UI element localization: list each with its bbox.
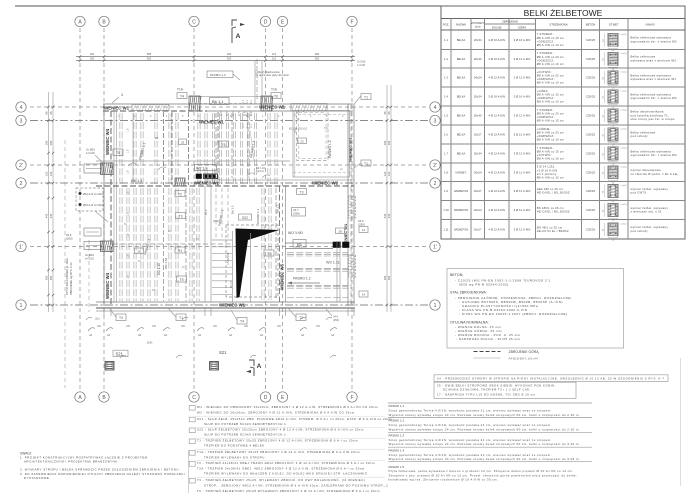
svg-text:E: E xyxy=(281,395,285,401)
beam B1 with label xyxy=(285,242,333,244)
balcony slab 3 xyxy=(84,242,103,250)
svg-text:14: 14 xyxy=(362,228,366,232)
heavy post line x218 xyxy=(217,112,219,186)
note block PASMO 1.4 xyxy=(388,446,592,448)
row 1.9 section sketch xyxy=(608,185,618,198)
slab edge line y161 xyxy=(96,160,290,162)
svg-text:pod schody: pod schody xyxy=(631,229,649,233)
note separator xyxy=(195,476,385,478)
svg-text:3 Ø 16 A-IIIN: 3 Ø 16 A-IIIN xyxy=(514,95,531,99)
wall hatch block left 1 xyxy=(101,163,114,175)
svg-text:24 - PRZEWIDZIEĆ OTWORY W STRO: 24 - PRZEWIDZIEĆ OTWORY W STROPIE NA PIO… xyxy=(437,375,665,380)
svg-text:C20/25: C20/25 xyxy=(586,57,595,61)
axis D vertical gridline xyxy=(265,28,267,390)
svg-text:20x34: 20x34 xyxy=(474,38,482,42)
svg-text:T3: T3 xyxy=(300,190,304,194)
svg-text:4 Ø 12 A-IIIN: 4 Ø 12 A-IIIN xyxy=(488,133,505,137)
svg-text:C20/25: C20/25 xyxy=(586,76,595,80)
leader arc xyxy=(228,328,235,331)
svg-text:180: 180 xyxy=(126,325,131,328)
svg-text:(250): (250) xyxy=(358,223,365,227)
svg-text:1.5: 1.5 xyxy=(444,114,448,118)
axis 4 left circle xyxy=(16,102,26,112)
axis D top circle xyxy=(260,16,270,26)
svg-text:21.5: 21.5 xyxy=(239,111,241,116)
svg-text:115: 115 xyxy=(272,57,277,61)
svg-text:4 Ø 12 A-IIIN: 4 Ø 12 A-IIIN xyxy=(488,152,505,156)
beam wieniec W1 top xyxy=(103,103,353,105)
black square block 1 xyxy=(333,242,341,248)
svg-text:PASMO 1.1: PASMO 1.1 xyxy=(389,404,405,408)
beam W1 top hatched segment xyxy=(132,105,169,111)
svg-text:Ø8 A-IIIN co 10 cm: Ø8 A-IIIN co 10 cm xyxy=(537,138,565,142)
svg-text:C20/25: C20/25 xyxy=(586,189,595,193)
leader arc xyxy=(197,328,204,331)
svg-text:60: 60 xyxy=(182,267,185,269)
svg-text:20x40: 20x40 xyxy=(474,57,482,61)
svg-text:wb: wb xyxy=(89,334,93,337)
svg-text:Ø8 A-IIIN co 15 cm: Ø8 A-IIIN co 15 cm xyxy=(537,175,565,179)
ribs room C-D upper xyxy=(197,113,199,184)
top dimension line 1 xyxy=(76,56,355,58)
svg-text:1: 1 xyxy=(262,115,264,118)
svg-text:585: 585 xyxy=(147,52,152,56)
svg-text:Bel 1.4: Bel 1.4 xyxy=(131,179,142,183)
svg-text:F: F xyxy=(350,395,353,401)
svg-text:2: 2 xyxy=(20,181,23,187)
table row 1.8 separator xyxy=(441,162,685,164)
table header bottom line xyxy=(441,29,685,31)
svg-text:28: 28 xyxy=(338,229,342,233)
svg-text:180: 180 xyxy=(90,52,95,56)
note block PASMO 1.5 xyxy=(388,461,592,463)
svg-text:WIENIEC W1: WIENIEC W1 xyxy=(103,105,130,110)
label 28 boxed xyxy=(336,228,345,234)
svg-text:365: 365 xyxy=(49,275,53,280)
axis B top circle xyxy=(99,16,109,26)
svg-text:4: 4 xyxy=(121,93,123,97)
svg-text:"+str(2)+": "+str(2)+" xyxy=(620,33,629,36)
svg-text:34: 34 xyxy=(603,96,605,99)
svg-text:"+str(2)+": "+str(2)+" xyxy=(620,128,629,131)
svg-text:2. WYMIARY STROPU I BELEK SPRA: 2. WYMIARY STROPU I BELEK SPRAWDZIĆ PRZE… xyxy=(20,466,179,471)
svg-text:HE-CA/EL / BS_50/50Z: HE-CA/EL / BS_50/50Z xyxy=(537,191,570,195)
svg-text:W2 1.11: W2 1.11 xyxy=(326,261,340,265)
svg-text:T4: T4 xyxy=(240,319,244,323)
svg-text:C: C xyxy=(192,395,196,401)
beam wieniec W2 axis2 xyxy=(205,179,354,181)
svg-text:20x27: 20x27 xyxy=(474,189,482,193)
svg-text:D: D xyxy=(264,20,268,26)
svg-text:T-9: T-9 xyxy=(324,127,328,130)
reinforcement callout box xyxy=(76,188,103,211)
svg-text:"+str(2)+": "+str(2)+" xyxy=(620,203,629,206)
row 1.8 section sketch xyxy=(608,166,618,179)
ribs room B-C upper xyxy=(119,113,121,184)
svg-text:C20/25: C20/25 xyxy=(586,208,595,212)
svg-text:5: 5 xyxy=(182,115,184,118)
svg-text:BETON:: BETON: xyxy=(450,273,463,277)
svg-text:"+str(2)+": "+str(2)+" xyxy=(620,71,629,74)
table row 1.9 separator xyxy=(441,181,685,183)
T5 boxed label lower room xyxy=(177,276,187,282)
beam wieniec W4 left vertical xyxy=(103,104,105,306)
black square row near C-D axis2 xyxy=(196,174,202,179)
svg-text:120: 120 xyxy=(387,171,391,176)
axis A vertical gridline xyxy=(79,28,81,390)
svg-text:34: 34 xyxy=(603,228,605,231)
leader arc xyxy=(163,328,170,331)
svg-text:1.6: 1.6 xyxy=(444,133,448,137)
axis C vertical gridline xyxy=(193,28,195,390)
svg-text:34: 34 xyxy=(603,58,605,61)
svg-text:T1A: T1A xyxy=(271,88,278,92)
svg-text:STRZEMIONA: STRZEMIONA xyxy=(549,23,567,27)
svg-text:TRZPIEŃ DO PODSTAWĘ 4 BELEK: TRZPIEŃ DO PODSTAWĘ 4 BELEK xyxy=(204,444,265,448)
svg-text:"+str(2)+": "+str(2)+" xyxy=(620,52,629,55)
svg-text:3 Ø 16 A-IIIN: 3 Ø 16 A-IIIN xyxy=(488,95,505,99)
26 boxed left xyxy=(135,248,144,254)
svg-text:wb: wb xyxy=(138,334,142,337)
row 1.5 section sketch xyxy=(608,109,618,122)
svg-text:T6 - TRZPIEŃ ŻELBETOWY 25x25 W: T6 - TRZPIEŃ ŻELBETOWY 25x25 WYLEWANY ZB… xyxy=(197,488,380,493)
svg-text:3 Ø 12 A-IIIN: 3 Ø 12 A-IIIN xyxy=(514,170,531,174)
svg-text:21.5: 21.5 xyxy=(247,99,249,104)
svg-text:wylewana wraz z wieńcem W1: wylewana wraz z wieńcem W1 xyxy=(631,77,677,81)
svg-text:A: A xyxy=(236,33,241,40)
svg-text:445: 445 xyxy=(387,213,391,218)
leader arc xyxy=(88,328,95,331)
svg-text:T2A - TRZPIEŃ 24x38/41 OBEJ. 4: T2A - TRZPIEŃ 24x38/41 OBEJ. 4Ø12 ZBROJO… xyxy=(197,466,365,470)
svg-text:PASMO 1.4: PASMO 1.4 xyxy=(256,209,260,224)
svg-text:HE-CA/EL / BS_50/50Z: HE-CA/EL / BS_50/50Z xyxy=(537,210,570,214)
svg-text:A4-BLB-BH-1 101+A4: A4-BLB-BH-1 101+A4 xyxy=(509,357,539,361)
T1 boxed bottom xyxy=(176,314,186,321)
axis 1 right circle xyxy=(430,300,440,310)
svg-text:E: E xyxy=(281,20,285,26)
label T6 boxed mid xyxy=(219,141,229,147)
axis E vertical gridline xyxy=(282,28,284,390)
axis 2 horizontal gridline xyxy=(30,182,428,184)
svg-text:Wypełnić otwory wylewkę stropu: Wypełnić otwory wylewkę stropu 24 cm. Ro… xyxy=(389,442,581,446)
dim tick xyxy=(351,55,354,58)
svg-text:NADBETON: NADBETON xyxy=(454,208,468,212)
svg-text:7 STRZEM.:: 7 STRZEM.: xyxy=(537,108,554,112)
svg-text:Ø10 A-III co 20cm: Ø10 A-III co 20cm xyxy=(83,203,104,207)
balcony slab 1 xyxy=(84,164,103,173)
svg-text:1.11: 1.11 xyxy=(443,227,449,231)
stair steps xyxy=(212,239,232,241)
axis 1 horizontal gridline xyxy=(30,304,428,306)
right vertical dimension line 2 xyxy=(390,85,392,312)
svg-text:Bd 1.5: Bd 1.5 xyxy=(276,204,280,213)
svg-text:3 Ø 14 L251,: 3 Ø 14 L251, xyxy=(537,165,556,169)
svg-text:WIENIEC W1: WIENIEC W1 xyxy=(219,303,246,308)
svg-text:180: 180 xyxy=(152,325,157,328)
svg-text:T6: T6 xyxy=(222,143,226,147)
label W2 1.9 boxed xyxy=(195,165,217,171)
svg-text:6: 6 xyxy=(198,115,200,118)
entrance beam Bd 1.1 xyxy=(189,96,272,98)
svg-text:PASMO 1.1: PASMO 1.1 xyxy=(218,209,225,226)
svg-text:wb: wb xyxy=(164,334,168,337)
T3 boxed bottom xyxy=(296,314,306,321)
svg-text:7 STRZEM.:: 7 STRZEM.: xyxy=(537,51,554,55)
svg-text:86: 86 xyxy=(45,111,49,114)
svg-text:TRZPIEŃ WYLEWANY DO WŁĄCZEŃ Z: TRZPIEŃ WYLEWANY DO WŁĄCZEŃ Z KOLEJ. DO … xyxy=(204,471,367,476)
svg-text:180: 180 xyxy=(244,325,249,328)
svg-text:445: 445 xyxy=(383,213,387,218)
svg-text:A: A xyxy=(78,20,82,26)
svg-text:T6: T6 xyxy=(274,94,278,98)
svg-text:BELKI ŻELBETOWE: BELKI ŻELBETOWE xyxy=(524,8,603,18)
svg-text:wb: wb xyxy=(229,334,233,337)
svg-text:BELKA: BELKA xyxy=(457,76,466,80)
left vertical dimension line 2 xyxy=(52,92,54,312)
svg-text:C20/25: C20/25 xyxy=(586,170,595,174)
svg-text:"+str(2)+": "+str(2)+" xyxy=(620,147,629,150)
black square block 2 xyxy=(343,242,350,248)
table row 1.2 separator xyxy=(441,49,685,51)
beam wieniec W3 right vertical xyxy=(347,104,349,306)
axis B bottom circle xyxy=(99,392,109,402)
svg-text:21.5: 21.5 xyxy=(245,111,247,116)
svg-text:180: 180 xyxy=(97,325,102,328)
svg-text:WIENIEC W1: WIENIEC W1 xyxy=(199,119,225,124)
dim tick xyxy=(47,164,50,167)
svg-text:580: 580 xyxy=(315,57,320,61)
svg-text:T1: T1 xyxy=(364,95,368,99)
leader arc xyxy=(259,328,266,331)
svg-text:(24.2): (24.2) xyxy=(257,169,264,173)
svg-text:W1 - WIENIEC DO OBWODOWY 20x20: W1 - WIENIEC DO OBWODOWY 20x20cm, ZBROJO… xyxy=(197,405,378,409)
svg-text:2: 2 xyxy=(278,115,280,118)
label T6 boxed xyxy=(271,93,281,99)
svg-text:Ø8 A-IIIN co 20 cm: Ø8 A-IIIN co 20 cm xyxy=(537,74,565,78)
leader arc xyxy=(300,328,307,331)
svg-text:365: 365 xyxy=(383,275,387,280)
svg-text:SŁUP DO POTRZEB ŚCIAN ZEWNĘTRZ: SŁUP DO POTRZEB ŚCIAN ZEWNĘTRZNYCH 1 xyxy=(204,432,286,437)
svg-text:120: 120 xyxy=(383,171,387,176)
svg-text:PŁYTA BALKONOWA gr. 16cm: PŁYTA BALKONOWA gr. 16cm xyxy=(65,257,69,295)
svg-text:wb: wb xyxy=(301,334,305,337)
axis 3 right circle xyxy=(430,115,440,125)
T3 boxed left room xyxy=(176,213,186,219)
table row 1.5 separator xyxy=(441,105,685,107)
svg-text:W2 1.9: W2 1.9 xyxy=(196,166,207,170)
small label 23 boxed xyxy=(179,139,187,145)
svg-text:21.5: 21.5 xyxy=(256,80,259,85)
svg-text:3 Ø 12 A-IIIN: 3 Ø 12 A-IIIN xyxy=(514,152,531,156)
svg-text:HE-CN 51 EL / B428/2: HE-CN 51 EL / B428/2 xyxy=(537,229,569,233)
svg-text:z gł. na obw. płyty obu stron: z gł. na obw. płyty obu stron xyxy=(257,73,290,77)
svg-text:20: 20 xyxy=(612,88,615,90)
boxed note 24 xyxy=(434,375,668,382)
svg-text:W2 - WIENIEC DO 20x20cm, ZBROJ: W2 - WIENIEC DO 20x20cm, ZBROJONY 4 Ø 12… xyxy=(197,411,355,415)
svg-text:+GÓRNE:: +GÓRNE: xyxy=(537,126,551,131)
inner wall lines right of W4 xyxy=(113,111,115,302)
svg-text:pod CW75: pod CW75 xyxy=(631,191,647,195)
label T1 boxed right xyxy=(361,94,371,100)
svg-text:T3: T3 xyxy=(267,252,271,256)
svg-text:20: 20 xyxy=(612,145,615,147)
svg-text:20x27: 20x27 xyxy=(474,133,482,137)
svg-text:1.8: 1.8 xyxy=(127,128,130,132)
svg-text:1': 1' xyxy=(19,245,23,251)
svg-text:WIENIEC W2: WIENIEC W2 xyxy=(312,181,339,186)
svg-text:180: 180 xyxy=(90,57,95,61)
svg-text:z wieńcami obj. o 51: z wieńcami obj. o 51 xyxy=(631,210,662,214)
svg-text:Ø8 A-IIIN co 10 cm: Ø8 A-IIIN co 10 cm xyxy=(537,62,565,66)
svg-text:Wypełnić otwory wylewkę stropu: Wypełnić otwory wylewkę stropu 24 cm. Ro… xyxy=(389,427,581,431)
table row 1.4 separator xyxy=(441,86,685,88)
svg-text:wylewana wraz z wieńcem W2: wylewana wraz z wieńcem W2 xyxy=(631,58,677,62)
svg-text:295: 295 xyxy=(45,140,49,145)
svg-text:2': 2' xyxy=(433,163,437,169)
svg-text:Bb 1.1: Bb 1.1 xyxy=(212,99,224,104)
svg-text:17x18.5x25: 17x18.5x25 xyxy=(227,252,230,265)
axis F vertical gridline xyxy=(351,28,353,390)
axis F top circle xyxy=(347,16,357,26)
svg-text:PASMO 1.4: PASMO 1.4 xyxy=(389,448,405,452)
svg-text:C20/25: C20/25 xyxy=(586,133,595,137)
dim tick xyxy=(386,119,389,122)
svg-text:3 Ø 12 A-IIIN: 3 Ø 12 A-IIIN xyxy=(514,57,531,61)
svg-text:"+str(2)+": "+str(2)+" xyxy=(620,184,629,187)
svg-text:DYSTANSOWE.: DYSTANSOWE. xyxy=(24,476,51,480)
svg-text:T3: T3 xyxy=(179,214,183,218)
svg-text:BELKA: BELKA xyxy=(457,133,466,137)
svg-text:2 Ø 12 A-IIIN: 2 Ø 12 A-IIIN xyxy=(514,76,531,80)
room E-F upper outline xyxy=(293,111,350,178)
labels 14 boxed right xyxy=(359,227,368,233)
axis2 hatch block xyxy=(175,178,185,186)
svg-text:+DGĘSZCZ.:: +DGĘSZCZ.: xyxy=(537,115,555,119)
svg-text:60: 60 xyxy=(196,239,199,241)
dim tick xyxy=(47,182,50,185)
svg-text:F: F xyxy=(350,20,353,26)
svg-text:365: 365 xyxy=(387,275,391,280)
svg-text:20: 20 xyxy=(612,50,615,52)
svg-text:ØS 48/1 co 30 cm: ØS 48/1 co 30 cm xyxy=(537,225,563,229)
svg-text:W2 1.10: W2 1.10 xyxy=(157,263,161,275)
svg-text:295: 295 xyxy=(387,140,391,145)
svg-text:24x24: 24x24 xyxy=(474,76,482,80)
dim tick xyxy=(386,304,389,307)
dim tick xyxy=(386,164,389,167)
axis D bottom circle xyxy=(260,392,270,402)
label T4 boxed xyxy=(177,93,187,99)
svg-text:1.8: 1.8 xyxy=(127,170,130,174)
svg-text:180: 180 xyxy=(213,325,218,328)
beam wieniec W5 axis E lower xyxy=(279,186,281,302)
svg-text:HEA 180 co 26 cm: HEA 180 co 26 cm xyxy=(537,187,564,191)
svg-text:C20/25: C20/25 xyxy=(586,114,595,118)
svg-text:L=2.00: L=2.00 xyxy=(85,256,94,260)
svg-text:(250): (250) xyxy=(213,219,220,223)
svg-text:B1.2 4x Ø10 L10: B1.2 4x Ø10 L10 xyxy=(289,128,308,131)
svg-text:WIENIEC W1: WIENIEC W1 xyxy=(348,137,353,162)
column S21 left label xyxy=(113,350,128,356)
svg-text:4 Ø 16 A-IIIN: 4 Ø 16 A-IIIN xyxy=(488,38,505,42)
svg-text:C: C xyxy=(192,20,196,26)
svg-text:B1: B1 xyxy=(297,242,303,247)
svg-text:34: 34 xyxy=(603,190,605,193)
axis A top circle xyxy=(75,16,85,26)
svg-text:PASMO 1.2: PASMO 1.2 xyxy=(210,73,226,77)
svg-text:(1b): (1b) xyxy=(95,317,100,321)
svg-text:pod schody: pod schody xyxy=(631,134,649,138)
wall stubs below beam xyxy=(103,308,105,316)
svg-text:26: 26 xyxy=(137,249,141,253)
boxed note 25 xyxy=(434,382,576,398)
svg-text:86: 86 xyxy=(49,111,53,114)
svg-text:NADBETON: NADBETON xyxy=(454,189,468,193)
svg-text:+GÓRĄ:: +GÓRĄ: xyxy=(537,88,549,93)
svg-text:115: 115 xyxy=(272,52,277,56)
svg-text:21.5: 21.5 xyxy=(256,94,259,99)
dim tick xyxy=(47,304,50,307)
svg-text:1: 1 xyxy=(20,303,23,309)
room E-F lower horizontal ribs xyxy=(287,252,348,254)
svg-text:3 Ø 16 A-IIIN: 3 Ø 16 A-IIIN xyxy=(514,38,531,42)
leader arc xyxy=(330,328,337,331)
dim tick xyxy=(386,106,389,109)
axis 2' right circle xyxy=(430,160,440,170)
svg-text:Ø8 A-IIIN co 10 cm: Ø8 A-IIIN co 10 cm xyxy=(537,43,565,47)
row 1.10 section sketch xyxy=(608,204,618,217)
axis 4 horizontal gridline xyxy=(30,106,428,108)
svg-text:+DGĘSZCZ.:: +DGĘSZCZ.: xyxy=(537,77,555,81)
svg-text:WIENIEC W4: WIENIEC W4 xyxy=(105,128,110,155)
svg-text:Ø8 A-IIIN co 15 cm: Ø8 A-IIIN co 15 cm xyxy=(537,119,565,123)
svg-text:S21 - SŁUP ŻELB. 25x25cm ZBR.: S21 - SŁUP ŻELB. 25x25cm ZBR. PIONOWE 4Ø… xyxy=(197,416,392,421)
svg-text:ST-BET: ST-BET xyxy=(609,23,619,27)
svg-text:24: 24 xyxy=(340,169,343,171)
svg-text:20x24: 20x24 xyxy=(474,208,482,212)
svg-text:86: 86 xyxy=(383,111,387,114)
svg-text:7 STRZEM.:: 7 STRZEM.: xyxy=(537,32,554,36)
svg-text:UWAGI: UWAGI xyxy=(645,23,655,27)
dim tick xyxy=(47,245,50,248)
axis E bottom circle xyxy=(277,392,287,402)
svg-text:34: 34 xyxy=(603,153,605,156)
svg-text:180: 180 xyxy=(181,325,186,328)
svg-text:ZBROJENIE: ZBROJENIE xyxy=(502,20,518,24)
svg-text:"+str(2)+": "+str(2)+" xyxy=(620,109,629,112)
svg-text:3: 3 xyxy=(20,119,23,125)
svg-text:Ø8 A-IIIN co 20 cm: Ø8 A-IIIN co 20 cm xyxy=(537,55,565,59)
svg-text:20: 20 xyxy=(612,201,615,203)
row 1.11 section sketch xyxy=(608,223,618,236)
S22 boxed label xyxy=(239,214,252,220)
note block PASMO 1.1 xyxy=(388,402,592,404)
svg-text:7 STRZEM.:: 7 STRZEM.: xyxy=(537,146,554,150)
axis 4 right circle xyxy=(430,102,440,112)
label Bb 1.1 boxed xyxy=(210,98,230,105)
column S21 right symbol xyxy=(210,362,219,371)
svg-text:34: 34 xyxy=(603,115,605,118)
svg-text:T4: T4 xyxy=(119,316,123,320)
svg-text:120: 120 xyxy=(45,171,49,176)
note block PASMO 1.3 xyxy=(388,431,592,433)
svg-text:L=2.00: L=2.00 xyxy=(86,151,95,155)
table row 1.11 separator xyxy=(441,219,685,221)
svg-text:- St3SX WG PN-EN 10025-1:2007: - St3SX WG PN-EN 10025-1:2007 (ZBROJ. RO… xyxy=(459,312,568,316)
column hatch block C xyxy=(189,96,200,111)
black wedge (stair arrow) xyxy=(236,229,280,299)
svg-text:BELKA: BELKA xyxy=(457,114,466,118)
